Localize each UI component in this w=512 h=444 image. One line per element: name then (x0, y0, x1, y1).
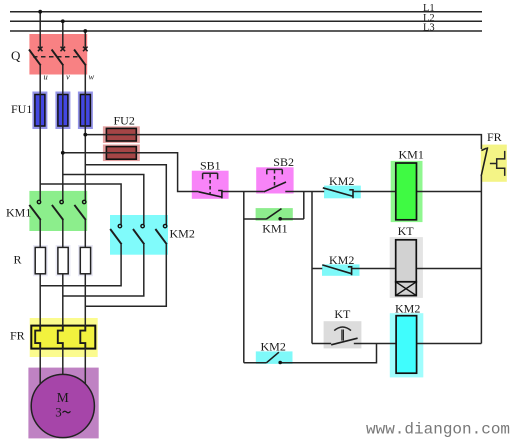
svg-text:3: 3 (55, 404, 62, 419)
svg-text:w: w (89, 72, 95, 82)
svg-text:v: v (66, 72, 70, 82)
svg-text:SB2: SB2 (273, 155, 294, 169)
svg-text:FU1: FU1 (11, 102, 32, 116)
svg-text:KM2: KM2 (329, 253, 354, 267)
svg-text:FU2: FU2 (114, 114, 135, 128)
svg-text:KM2: KM2 (395, 302, 420, 316)
svg-text:KT: KT (398, 224, 415, 238)
svg-text:KM2: KM2 (261, 340, 286, 354)
svg-text:FR: FR (487, 130, 502, 144)
svg-text:www.diangon.com: www.diangon.com (366, 421, 510, 439)
svg-text:KM2: KM2 (329, 174, 354, 188)
svg-text:M: M (57, 390, 69, 405)
svg-text:KM1: KM1 (399, 148, 424, 162)
svg-text:SB1: SB1 (200, 159, 221, 173)
svg-text:KM1: KM1 (6, 206, 31, 220)
svg-text:u: u (44, 72, 48, 82)
svg-text:KT: KT (334, 307, 351, 321)
svg-text:FR: FR (10, 329, 25, 343)
svg-text:KM1: KM1 (262, 222, 287, 236)
svg-text:KM2: KM2 (170, 227, 195, 241)
svg-text:Q: Q (11, 48, 21, 63)
svg-text:R: R (14, 253, 22, 267)
svg-text:L3: L3 (423, 23, 435, 34)
